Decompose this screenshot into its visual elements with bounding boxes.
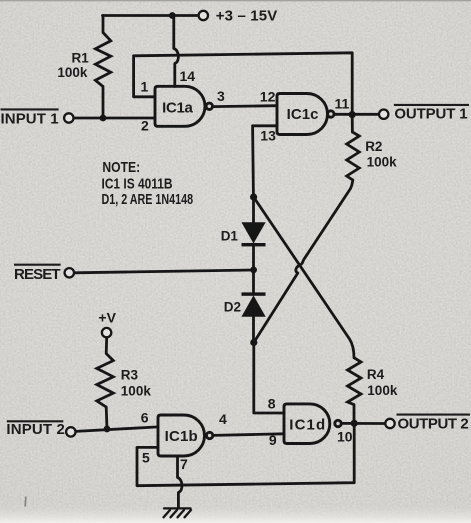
svg-text:NOTE:: NOTE: [102, 159, 140, 175]
svg-text:13: 13 [260, 128, 276, 144]
svg-text:6: 6 [141, 409, 149, 425]
svg-text:12: 12 [260, 88, 276, 104]
svg-text:1: 1 [141, 79, 149, 95]
svg-text:INPUT 2: INPUT 2 [6, 421, 64, 438]
svg-text:100k: 100k [57, 65, 88, 80]
svg-text:R2: R2 [365, 139, 382, 154]
svg-text:IC1c: IC1c [287, 106, 319, 123]
svg-text:7: 7 [180, 456, 188, 472]
svg-text:100k: 100k [121, 384, 152, 399]
svg-text:D1: D1 [221, 228, 239, 243]
svg-text:100k: 100k [367, 383, 398, 398]
svg-text:R1: R1 [72, 51, 90, 66]
svg-text:11: 11 [335, 96, 350, 112]
svg-text:RESET: RESET [14, 266, 61, 283]
svg-text:R3: R3 [121, 367, 139, 382]
svg-text:3: 3 [217, 88, 225, 104]
svg-text:OUTPUT 2: OUTPUT 2 [398, 415, 469, 432]
svg-text:R4: R4 [367, 367, 385, 382]
svg-text:100k: 100k [367, 155, 398, 170]
svg-text:IC1a: IC1a [162, 100, 193, 117]
svg-text:4: 4 [219, 411, 227, 427]
svg-text:D2: D2 [224, 299, 241, 314]
svg-text:+V: +V [98, 309, 116, 325]
svg-text:+3 – 15V: +3 – 15V [216, 8, 278, 25]
svg-text:10: 10 [337, 428, 353, 444]
svg-text:OUTPUT 1: OUTPUT 1 [394, 106, 467, 123]
svg-text:5: 5 [142, 449, 150, 465]
svg-text:14: 14 [180, 68, 196, 84]
svg-text:IC1 IS 4011B: IC1 IS 4011B [102, 175, 173, 191]
svg-text:2: 2 [141, 118, 149, 134]
svg-text:8: 8 [268, 396, 276, 412]
svg-text:INPUT 1: INPUT 1 [1, 111, 59, 128]
svg-text:9: 9 [269, 432, 277, 448]
svg-text:IC1b: IC1b [165, 428, 198, 445]
svg-text:D1, 2 ARE 1N4148: D1, 2 ARE 1N4148 [102, 190, 194, 207]
svg-text:IC1d: IC1d [289, 416, 325, 433]
